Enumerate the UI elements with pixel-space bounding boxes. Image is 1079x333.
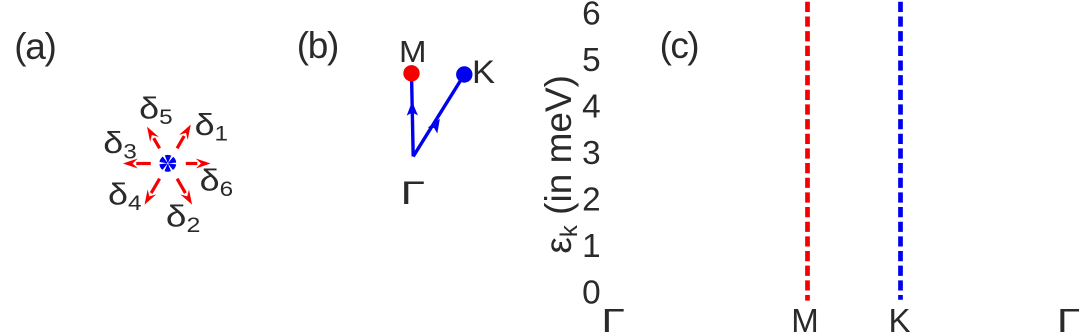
- svg-text:εk (in meV): εk (in meV): [538, 75, 583, 254]
- svg-text:δ4: δ4: [108, 177, 142, 216]
- svg-text:0: 0: [582, 275, 601, 312]
- svg-text:5: 5: [582, 42, 601, 79]
- path Gamma to M (blue line): [412, 73, 414, 156]
- svg-text:Γ: Γ: [1057, 302, 1079, 333]
- arrow delta6 (0 deg): [186, 159, 211, 169]
- svg-text:δ6: δ6: [200, 163, 234, 202]
- svg-text:2: 2: [582, 182, 601, 219]
- dashed blue circle (center site): [163, 159, 172, 168]
- arrow delta2 (300 deg): [177, 179, 192, 205]
- svg-text:6: 6: [582, 0, 601, 33]
- svg-text:K: K: [888, 302, 910, 333]
- svg-text:δ2: δ2: [166, 199, 201, 238]
- arrow delta3 (180 deg): [123, 159, 151, 169]
- svg-text:δ3: δ3: [103, 125, 137, 164]
- svg-text:4: 4: [582, 89, 601, 126]
- svg-text:M: M: [791, 302, 819, 333]
- svg-text:(b): (b): [297, 25, 340, 66]
- K point (blue dot): [456, 66, 472, 82]
- svg-text:Γ: Γ: [601, 302, 625, 333]
- arrowhead on Gamma-M path: [407, 102, 418, 116]
- arrowhead on Gamma-K path: [428, 119, 440, 134]
- path Gamma to K (blue line): [413, 75, 464, 157]
- arrow delta4 (240 deg): [145, 179, 160, 205]
- svg-text:δ1: δ1: [195, 107, 229, 146]
- M point (red dot): [403, 65, 419, 81]
- svg-text:δ5: δ5: [139, 90, 173, 129]
- arrow delta5 (120 deg): [147, 127, 160, 149]
- svg-text:(a): (a): [14, 26, 57, 67]
- svg-text:1: 1: [582, 228, 601, 265]
- svg-text:(c): (c): [660, 25, 700, 66]
- svg-text:K: K: [472, 54, 495, 90]
- arrow delta1 (60 deg): [177, 125, 191, 149]
- blue dashed vertical line at K: [898, 2, 903, 300]
- svg-text:M: M: [399, 34, 427, 69]
- svg-text:Γ: Γ: [401, 175, 426, 211]
- red dashed vertical line at M: [805, 2, 810, 301]
- svg-text:3: 3: [582, 135, 601, 172]
